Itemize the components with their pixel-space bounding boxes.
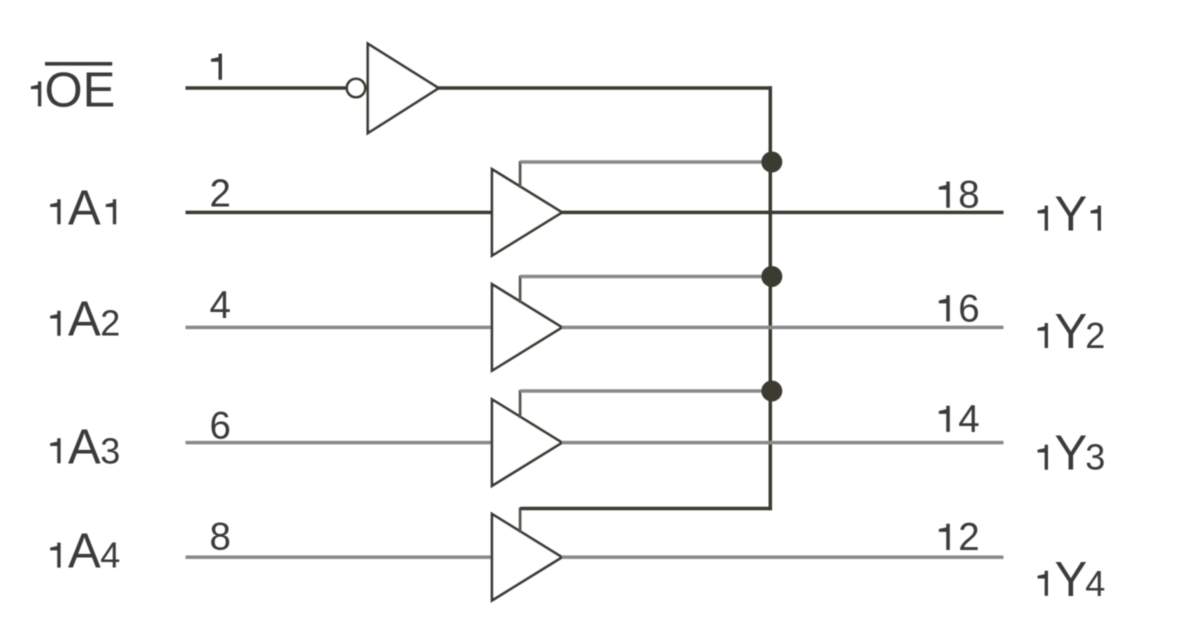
svg-text:2: 2 (958, 516, 979, 559)
svg-text:3: 3 (1085, 437, 1105, 478)
svg-text:OE: OE (45, 63, 116, 117)
svg-text:Y: Y (1055, 553, 1088, 607)
svg-text:4: 4 (100, 535, 120, 576)
svg-text:A: A (68, 181, 101, 235)
svg-text:4: 4 (210, 284, 231, 327)
svg-text:2: 2 (100, 303, 120, 344)
svg-text:3: 3 (100, 430, 120, 471)
svg-text:Y: Y (1055, 305, 1088, 359)
svg-text:4: 4 (1085, 563, 1105, 604)
svg-text:4: 4 (958, 398, 979, 441)
svg-text:A: A (68, 420, 101, 474)
svg-text:2: 2 (1085, 315, 1105, 356)
svg-text:2: 2 (210, 173, 231, 216)
svg-text:A: A (68, 293, 101, 347)
svg-text:8: 8 (210, 516, 231, 559)
svg-text:8: 8 (958, 174, 979, 217)
svg-text:Y: Y (1055, 188, 1088, 242)
svg-text:6: 6 (958, 287, 979, 330)
svg-text:A: A (68, 525, 101, 579)
svg-text:Y: Y (1055, 427, 1088, 481)
